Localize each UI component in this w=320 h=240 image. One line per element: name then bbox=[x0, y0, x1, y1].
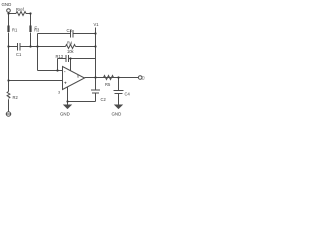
svg-text:R4: R4 bbox=[67, 41, 73, 46]
svg-text:V1: V1 bbox=[94, 22, 100, 27]
svg-text:C4: C4 bbox=[125, 92, 131, 97]
svg-text:R5: R5 bbox=[105, 82, 111, 87]
svg-text:C1: C1 bbox=[16, 52, 22, 57]
svg-text:10k: 10k bbox=[67, 49, 75, 54]
svg-text:3: 3 bbox=[58, 91, 60, 95]
svg-text:Rref: Rref bbox=[16, 7, 25, 12]
svg-text:GND: GND bbox=[60, 112, 70, 117]
svg-text:C: C bbox=[35, 26, 38, 30]
svg-text:+: + bbox=[64, 81, 67, 86]
svg-text:GND: GND bbox=[112, 112, 122, 117]
svg-text:-: - bbox=[64, 69, 66, 74]
svg-text:C3: C3 bbox=[67, 28, 73, 33]
svg-text:6: 6 bbox=[77, 75, 79, 79]
svg-text:GND: GND bbox=[2, 2, 12, 7]
svg-text:C2: C2 bbox=[101, 97, 107, 102]
svg-text:R2: R2 bbox=[13, 95, 19, 100]
svg-text:C5: C5 bbox=[142, 76, 146, 81]
svg-text:R13: R13 bbox=[56, 54, 64, 59]
svg-text:R1: R1 bbox=[12, 28, 18, 33]
